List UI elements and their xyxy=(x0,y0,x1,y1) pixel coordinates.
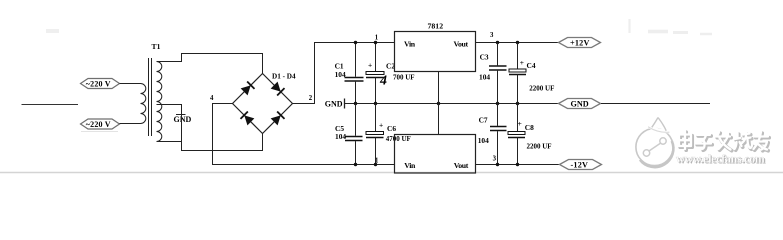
svg-text:+: + xyxy=(379,121,383,130)
watermark logo circle xyxy=(636,118,673,168)
decorative faint watermark remnant top right xyxy=(630,19,713,34)
svg-text:Vout: Vout xyxy=(454,39,469,48)
svg-text:104: 104 xyxy=(335,70,346,79)
svg-text:2200 UF: 2200 UF xyxy=(527,142,552,150)
transformer T1 primary winding xyxy=(141,84,146,124)
svg-text:+: + xyxy=(520,58,524,67)
svg-text:C3: C3 xyxy=(480,53,489,62)
svg-text:~220 V: ~220 V xyxy=(86,120,111,129)
transformer T1 core xyxy=(149,58,152,136)
capacitor C4 xyxy=(509,43,526,104)
svg-text:7812: 7812 xyxy=(428,21,444,30)
diode D (top-left edge) xyxy=(240,81,254,95)
capacitor C7 xyxy=(490,104,507,165)
node 3 pin label (7912 output) xyxy=(493,155,497,162)
capacitor C5 label xyxy=(335,124,346,141)
capacitor C1 xyxy=(345,43,364,104)
node 3 pin label (7812 output) xyxy=(490,32,494,39)
capacitor C2 xyxy=(366,43,384,104)
svg-text:2: 2 xyxy=(309,95,313,102)
svg-text:Vin: Vin xyxy=(404,39,416,48)
wire secondary bottom stub xyxy=(157,141,182,143)
svg-text:T1: T1 xyxy=(152,42,161,51)
node GND center tap label xyxy=(174,115,192,124)
wire mid GND rail xyxy=(356,103,559,105)
capacitor C1 label xyxy=(335,62,346,79)
wire bridge left to 7912 input rail xyxy=(213,104,395,165)
bridge D1-D4 frame xyxy=(233,74,293,134)
node 1 pin label (7912 input) xyxy=(375,158,379,165)
svg-text:C6: C6 xyxy=(387,124,396,133)
diode D (bottom-left edge) xyxy=(240,111,254,125)
regulator 7912 box xyxy=(395,135,476,174)
capacitor C6 label xyxy=(379,121,411,143)
wire GND rail right extension xyxy=(601,103,710,105)
regulator 7812 box xyxy=(395,32,476,72)
capacitor C5 xyxy=(345,104,363,165)
port -12V xyxy=(560,160,602,170)
diode D (top-right edge) xyxy=(270,81,284,95)
svg-text:C8: C8 xyxy=(525,123,534,132)
node 4 pin label xyxy=(210,95,214,102)
capacitor C7 label xyxy=(478,116,489,145)
svg-text:1: 1 xyxy=(375,35,379,42)
svg-text:C4: C4 xyxy=(527,61,536,70)
wire stray segment left xyxy=(22,104,79,106)
svg-text:700 UF: 700 UF xyxy=(393,74,415,82)
node 1 pin label (7812 input) xyxy=(375,35,379,42)
port GND (right) xyxy=(559,99,601,109)
svg-text:+: + xyxy=(518,119,522,128)
junction dots bottom rail left xyxy=(354,163,377,166)
bridge label D1 - D4 xyxy=(272,72,296,80)
svg-text:GND: GND xyxy=(571,100,589,109)
capacitor C3 label xyxy=(479,53,490,82)
svg-text:D1 - D4: D1 - D4 xyxy=(272,72,296,80)
svg-text:4: 4 xyxy=(379,74,387,89)
junction dots mid rail xyxy=(354,102,519,105)
capacitor C6 xyxy=(366,104,384,165)
regulator 7812 label xyxy=(428,21,444,30)
port GND (mid, text style) xyxy=(325,99,345,109)
wire 7812 output top rail right xyxy=(476,42,559,44)
transformer T1 secondary winding xyxy=(157,62,162,142)
svg-text:104: 104 xyxy=(335,132,346,141)
port P2 ~220 V xyxy=(81,119,120,129)
transformer T1 label xyxy=(152,42,161,51)
svg-text:1: 1 xyxy=(375,158,379,165)
capacitor C3 xyxy=(489,43,507,104)
svg-text:3: 3 xyxy=(490,32,494,39)
svg-text:104: 104 xyxy=(478,136,489,145)
diode D (bottom-right edge) xyxy=(270,111,284,125)
svg-text:+: + xyxy=(368,61,372,70)
wire faint artifact under port P2 xyxy=(81,131,118,133)
wire 7912 output bottom rail right xyxy=(476,164,560,166)
wire 7812 GND pin to mid rail to 7912 GND pin xyxy=(438,72,440,135)
decorative faint watermark remnant top left xyxy=(46,29,59,33)
capacitor C4 label xyxy=(520,58,555,92)
port +12V xyxy=(559,38,601,48)
svg-text:-12V: -12V xyxy=(571,161,589,170)
capacitor C8 xyxy=(508,104,525,165)
wire GND port to mid rail xyxy=(345,103,356,105)
svg-text:3: 3 xyxy=(493,155,497,162)
svg-text:104: 104 xyxy=(479,72,490,81)
svg-text:2200 UF: 2200 UF xyxy=(529,85,554,93)
svg-text:4700 UF: 4700 UF xyxy=(386,135,411,143)
svg-text:~220 V: ~220 V xyxy=(86,79,111,88)
wire secondary top to bridge top xyxy=(157,54,263,74)
svg-text:4: 4 xyxy=(210,95,214,102)
svg-text:+12V: +12V xyxy=(570,39,590,48)
port P1 ~220 V xyxy=(81,79,120,89)
capacitor C2 label xyxy=(368,61,415,89)
node 2 pin label xyxy=(309,95,313,102)
watermark url text xyxy=(676,151,766,166)
wire center tap xyxy=(157,105,263,151)
decorative bottom rule (page divider) xyxy=(0,172,783,174)
svg-text:GND: GND xyxy=(325,99,343,108)
wire port P1 to transformer primary top xyxy=(120,83,141,85)
svg-text:www.elecfans.com: www.elecfans.com xyxy=(676,151,765,165)
capacitor C8 label xyxy=(518,119,552,150)
svg-text:Vout: Vout xyxy=(454,161,469,170)
junction dots top rail xyxy=(354,41,519,44)
junction dots bottom rail right xyxy=(496,163,519,166)
svg-text:C7: C7 xyxy=(479,116,488,125)
svg-text:GND: GND xyxy=(174,115,192,124)
svg-text:Vin: Vin xyxy=(404,161,416,170)
wire bridge right to top rail xyxy=(293,43,395,104)
wire port P2 to transformer primary bottom xyxy=(120,123,141,125)
